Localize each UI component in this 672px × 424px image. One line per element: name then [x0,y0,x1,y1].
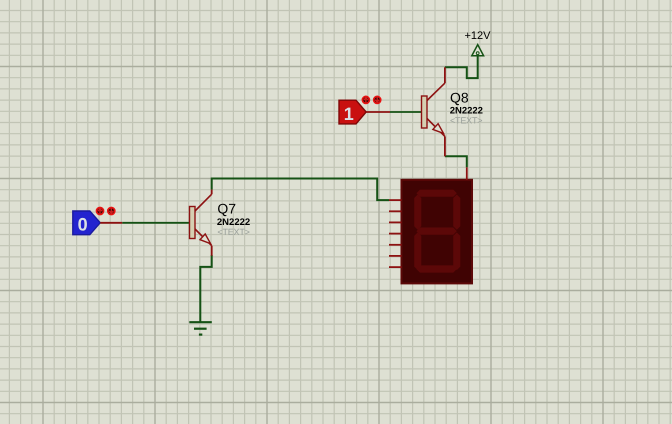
wire: Q8 emitter to display common pin [445,156,467,167]
power symbol +12V [472,45,484,56]
toggle button up (for state 0) [97,208,104,215]
toggle button up (for state 1) [362,96,369,103]
svg-text:Q7: Q7 [217,200,236,216]
wire: logic state 1 to Q8 base [390,111,422,113]
label +12V [465,30,492,42]
wire: Q7 collector to display pin a [212,179,389,201]
svg-text:<TEXT>: <TEXT> [217,227,249,237]
7-segment digit segments [414,190,460,273]
svg-text:1: 1 [344,104,354,124]
svg-text:<TEXT>: <TEXT> [450,116,482,126]
toggle button down (for state 0) [108,208,115,215]
toggle button down (for state 1) [374,96,381,103]
label Q8 [450,89,483,125]
7-segment display body [402,180,473,284]
transistor Q7 (2N2222) [190,190,212,256]
ground [189,322,212,334]
svg-text:+12V: +12V [465,30,492,42]
logic state 1 (red) [339,100,390,124]
transistor Q8 (2N2222) [422,67,445,156]
wire: logic state 0 to Q7 base [122,222,189,224]
svg-text:Q8: Q8 [450,89,469,105]
wire: Q7 emitter to ground [200,255,211,322]
logic state 0 (blue) [73,211,122,235]
label Q7 [217,200,250,237]
wire: Q8 collector to +12V power [445,56,478,78]
svg-text:0: 0 [78,215,88,235]
7-segment display pins [389,167,467,267]
